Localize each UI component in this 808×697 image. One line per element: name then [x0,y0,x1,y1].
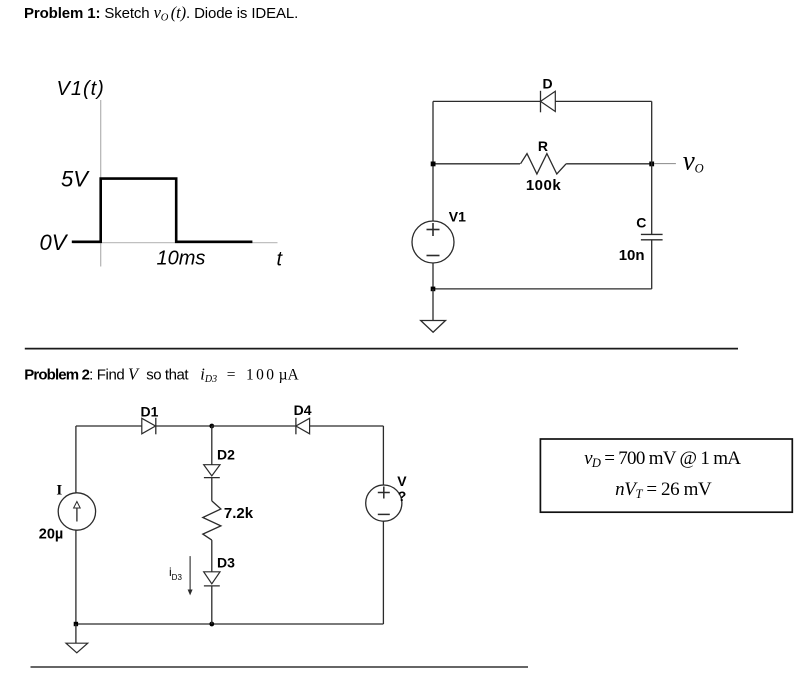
svg-text:D3: D3 [217,555,235,571]
equation nVT = 26 mV [615,479,712,501]
junction: bottom rail / ground [431,287,436,292]
label ? [398,488,407,504]
label R [538,138,548,154]
wire: circuit1 top rail right segment [555,100,651,102]
svg-text:D1: D1 [141,403,159,419]
current arrow iD3 [188,556,193,595]
equation vD = 700 mV @ 1 mA [584,448,741,470]
svg-text:10n: 10n [619,247,645,264]
svg-text:0V: 0V [40,230,69,255]
wire: circuit2 top rail (D4 to right corner) [310,425,384,427]
svg-text:V1: V1 [449,209,466,225]
svg-text:V1(t): V1(t) [57,78,105,100]
voltage source V [366,485,402,521]
ground (circuit 2) [66,643,88,653]
label vo (node name) [683,146,704,176]
wire: circuit2 top rail (D1 to middle node) [156,425,212,427]
svg-text:I: I [56,482,62,498]
svg-text:R: R [538,138,548,154]
voltage source V1 [412,221,454,263]
info box [540,439,792,512]
label D [542,76,552,92]
wire: circuit2 bottom rail [76,623,384,625]
svg-text:Find: Find [97,366,125,383]
wire: middle branch (D2 to resistor) [211,478,213,501]
wire: middle branch (D3 to bottom rail) [211,586,213,624]
title: Problem 1 [24,3,298,24]
wire: circuit2 top rail (I source to D1) [76,425,142,427]
resistor 7.2k [203,501,221,540]
junction: bottom middle node [209,622,214,627]
label 7.2k [224,505,254,522]
label 20µ [39,526,63,542]
wire: circuit2 left vertical (top rail to I source) [75,426,77,493]
svg-text:Problem 2:: Problem 2: [24,366,92,383]
svg-text:100: 100 [246,366,276,383]
svg-text:iD3: iD3 [200,364,217,385]
wire: middle branch (top node to D2) [211,426,213,465]
wire: circuit1 ground lead [432,289,434,321]
svg-text:7.2k: 7.2k [224,505,254,522]
label D3 [217,555,235,571]
divider line 2 [31,666,529,668]
label D1 [141,403,159,419]
svg-text:vD = 700 mV @ 1 mA: vD = 700 mV @ 1 mA [584,448,741,470]
junction: top middle node [209,424,214,429]
svg-text:µA: µA [279,366,300,383]
label t (time axis) [277,249,284,271]
label I [56,482,62,498]
label V1(t) (graph axis label) [57,78,105,100]
resistor R [521,154,567,174]
label 0V [40,230,69,255]
svg-text:D4: D4 [294,402,312,418]
diode D4 [296,418,310,435]
wire: V source to bottom rail [382,521,384,624]
svg-text:D: D [542,76,552,92]
current source I [58,493,95,530]
label V [397,473,407,489]
svg-text:100k: 100k [526,177,562,194]
graph x-axis [73,242,278,244]
label D4 [294,402,312,418]
wire: circuit1 left vertical (top rail to V1) [432,101,434,221]
label D2 [217,446,235,462]
wire: I source to bottom rail [75,530,77,624]
diode D2 [204,465,220,478]
wire: capacitor top lead [651,101,653,234]
svg-text:5V: 5V [61,167,90,192]
wire: middle branch (resistor to D3) [211,540,213,572]
wire: capacitor bottom lead [651,240,653,289]
label 5V [61,167,90,192]
title: Problem 2 [24,364,299,385]
svg-text:D2: D2 [217,446,235,462]
svg-text:vO: vO [683,146,704,176]
svg-text:iD3: iD3 [169,565,182,582]
svg-text:10ms: 10ms [157,248,206,270]
label 100k [526,177,562,194]
wire: circuit1 middle rail left of R [433,163,520,165]
wire: V1 to bottom rail [432,263,434,289]
wire: vo stub [654,163,676,165]
label 10ms [157,248,206,270]
graph y-axis [100,100,102,267]
capacitor C [641,234,663,239]
ground (circuit 1) [421,321,446,333]
graph pulse waveform [72,179,253,242]
wire: circuit2 right vertical (top rail to V source) [382,426,384,485]
diode D3 [204,572,220,586]
svg-text:V: V [128,364,140,383]
svg-text:=: = [227,366,236,383]
svg-text:Problem 1: Sketch vO(t). Diode: Problem 1: Sketch vO(t). Diode is IDEAL. [24,3,298,24]
junction: bottom left node [74,622,78,626]
svg-text:20µ: 20µ [39,526,63,542]
label C [636,215,646,231]
svg-text:V: V [397,473,407,489]
junction: middle rail / V1 branch [431,162,436,167]
diode D1 [142,418,156,435]
svg-text:?: ? [398,488,407,504]
wire: circuit2 ground lead [75,624,77,643]
wire: circuit1 middle rail right of R [566,163,652,165]
divider line 1 [25,348,738,350]
svg-text:C: C [636,215,646,231]
label iD3 [169,565,182,582]
wire: circuit1 bottom rail [433,288,652,290]
wire: circuit1 top rail left segment [433,100,541,102]
svg-text:t: t [277,249,284,271]
svg-text:nVT = 26 mV: nVT = 26 mV [615,479,712,501]
diode D [541,91,556,113]
wire: circuit2 top rail (middle node to D4) [212,425,296,427]
svg-text:so that: so that [146,366,189,383]
label V1 [449,209,466,225]
label 10n [619,247,645,264]
junction: vo node [649,162,654,167]
